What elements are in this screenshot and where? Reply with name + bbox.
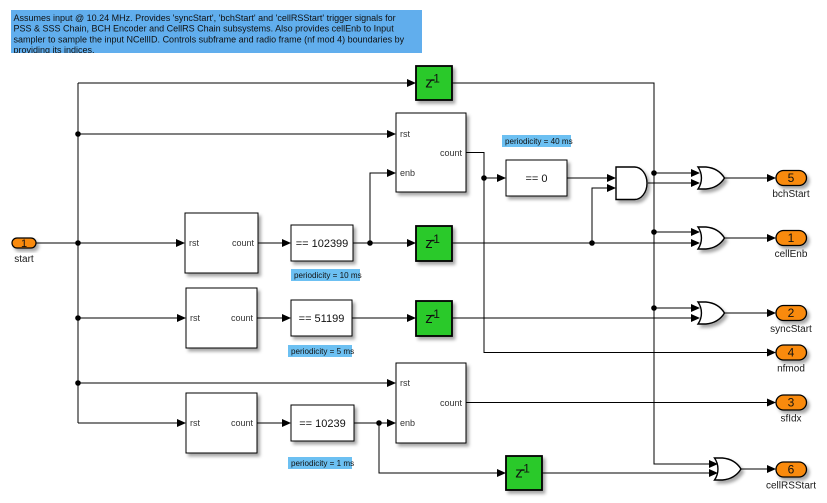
unit delay Z3 <box>416 301 452 336</box>
subsystem Counter1ms <box>186 393 257 453</box>
OR gate OR2 <box>698 227 725 249</box>
wire Z1 out down right side <box>452 83 718 468</box>
subsystem Counter10ms <box>185 213 258 273</box>
junction <box>651 305 657 311</box>
wire Counter1ms count to ==10239 <box>257 419 291 427</box>
wire OR1 to bchStart outport <box>724 174 776 182</box>
outport 1 cellEnb <box>775 231 808 261</box>
svg-text:count: count <box>231 313 254 323</box>
wire OR2 to cellEnb outport <box>724 234 776 242</box>
svg-text:== 102399: == 102399 <box>296 238 349 250</box>
outport 2 syncStart <box>770 306 812 336</box>
svg-text:sampler to sample the input NC: sampler to sample the input NCellID. Con… <box>14 34 405 44</box>
svg-text:syncStart: syncStart <box>770 324 812 335</box>
wire to Counter40ms enb <box>370 169 396 243</box>
svg-text:2: 2 <box>788 306 795 320</box>
svg-text:start: start <box>14 254 34 265</box>
wire to unit delay Z1 <box>78 79 416 87</box>
svg-text:cellEnb: cellEnb <box>775 249 808 260</box>
svg-text:periodicity = 5 ms: periodicity = 5 ms <box>291 347 354 356</box>
svg-text:1: 1 <box>21 238 27 250</box>
svg-text:6: 6 <box>788 463 795 477</box>
subsystem Counter5ms <box>186 288 257 348</box>
label periodicity = 5 ms <box>288 345 354 357</box>
junction <box>75 315 81 321</box>
wire to Counter1ms rst <box>78 419 186 427</box>
svg-text:nfmod: nfmod <box>777 364 805 375</box>
junction node enbRow <box>589 240 595 246</box>
label periodicity = 10 ms <box>291 269 362 281</box>
svg-text:sfIdx: sfIdx <box>780 414 801 425</box>
wire OR3 to syncStart outport <box>724 309 776 317</box>
wire to Counter1ms-sub rst <box>78 379 396 387</box>
outport 5 bchStart <box>772 171 809 201</box>
svg-text:== 0: == 0 <box>525 173 547 185</box>
outport 6 cellRSStart <box>766 462 816 492</box>
svg-text:4: 4 <box>788 346 795 360</box>
junction node count40 <box>481 175 487 181</box>
wire Z3 out to OR3 bottom <box>452 314 700 322</box>
wire to Counter10ms rst <box>78 239 185 247</box>
svg-text:5: 5 <box>788 171 795 185</box>
svg-text:1: 1 <box>433 71 440 85</box>
OR gate OR4 <box>715 458 742 480</box>
svg-text:count: count <box>440 148 463 158</box>
wire enbRow up to AND gate input 2 <box>592 184 616 243</box>
svg-text:rst: rst <box>400 378 410 388</box>
compare block == 0 <box>506 160 567 196</box>
svg-text:1: 1 <box>523 461 530 475</box>
wire branch to OR1 top <box>654 169 700 177</box>
wire AND output to OR1 <box>648 179 700 187</box>
compare block == 102399 <box>291 225 353 261</box>
svg-text:Assumes input @ 10.24 MHz. Pro: Assumes input @ 10.24 MHz. Provides 'syn… <box>14 13 396 23</box>
junction <box>75 131 81 137</box>
wire to Counter40ms rst <box>78 130 396 138</box>
svg-text:1: 1 <box>788 231 795 245</box>
label periodicity = 40 ms <box>502 135 573 147</box>
wire to Counter5ms rst <box>78 314 186 322</box>
svg-text:1: 1 <box>433 307 440 321</box>
svg-text:cellRSStart: cellRSStart <box>766 481 816 492</box>
OR gate OR1 <box>698 167 725 189</box>
annotation text box <box>11 10 422 55</box>
wire start distribution vertical <box>77 83 79 423</box>
svg-text:3: 3 <box>788 396 795 410</box>
unit delay Z1 <box>416 66 452 100</box>
svg-text:rst: rst <box>190 313 200 323</box>
inport 1 start <box>12 238 36 265</box>
svg-text:PSS & SSS Chain, BCH Encoder a: PSS & SSS Chain, BCH Encoder and CellRS … <box>14 24 395 34</box>
svg-text:1: 1 <box>433 232 440 246</box>
wire start to junction <box>36 242 78 244</box>
wire ==102399 to unit delay Z2 <box>353 239 416 247</box>
svg-text:enb: enb <box>400 418 415 428</box>
svg-text:rst: rst <box>190 418 200 428</box>
svg-text:bchStart: bchStart <box>772 189 809 200</box>
svg-text:z: z <box>515 464 523 481</box>
compare block == 51199 <box>291 300 352 336</box>
wire Counter1ms-sub count to sfIdx outport <box>466 399 776 407</box>
junction node enb40 <box>367 240 373 246</box>
subsystem Counter1ms-sub <box>396 363 466 443</box>
svg-text:count: count <box>232 238 255 248</box>
wire Z4 out to OR4 bottom <box>542 469 718 477</box>
wire into ==0 <box>484 174 506 182</box>
wire ==0 to AND gate <box>567 174 616 182</box>
svg-text:count: count <box>231 418 254 428</box>
svg-text:== 51199: == 51199 <box>299 313 345 325</box>
wire Z2 out to OR2 (cellEnb row) <box>452 239 700 247</box>
junction <box>75 380 81 386</box>
svg-text:periodicity = 10 ms: periodicity = 10 ms <box>294 271 362 280</box>
outport 3 sfIdx <box>776 395 807 425</box>
wire count40 down to nfmod outport <box>484 178 776 357</box>
svg-text:periodicity = 1 ms: periodicity = 1 ms <box>291 459 354 468</box>
svg-text:z: z <box>425 74 433 91</box>
junction <box>75 240 81 246</box>
unit delay Z4 <box>506 456 542 490</box>
wire OR4 to cellRSStart outport <box>741 465 776 473</box>
label periodicity = 1 ms <box>288 457 354 469</box>
wire enb1ms down to unit delay Z4 <box>379 423 506 477</box>
svg-text:z: z <box>425 235 433 252</box>
wire branch to OR3 top <box>654 304 700 312</box>
OR gate OR3 <box>698 302 725 324</box>
subsystem Counter40ms <box>396 113 466 192</box>
wire ==51199 to unit delay Z3 <box>352 314 416 322</box>
wire Counter40ms count to ==0 and nfmod <box>466 153 484 179</box>
svg-text:rst: rst <box>400 129 410 139</box>
AND gate <box>616 167 647 200</box>
junction <box>651 229 657 235</box>
junction <box>651 170 657 176</box>
outport 4 nfmod <box>776 345 807 375</box>
svg-text:enb: enb <box>400 168 415 178</box>
svg-text:count: count <box>440 398 463 408</box>
svg-text:z: z <box>425 310 433 327</box>
svg-text:== 10239: == 10239 <box>299 418 346 430</box>
junction node enb1ms <box>376 420 382 426</box>
wire ==10239 to Counter1ms-sub enb <box>354 419 396 427</box>
wire Counter10ms count to ==102399 <box>258 239 291 247</box>
svg-text:periodicity = 40 ms: periodicity = 40 ms <box>505 137 573 146</box>
svg-text:rst: rst <box>189 238 199 248</box>
wire Counter5ms count to ==51199 <box>257 314 291 322</box>
compare block == 10239 <box>291 405 354 441</box>
wire branch to OR2 top <box>654 228 700 236</box>
unit delay Z2 <box>416 226 452 261</box>
